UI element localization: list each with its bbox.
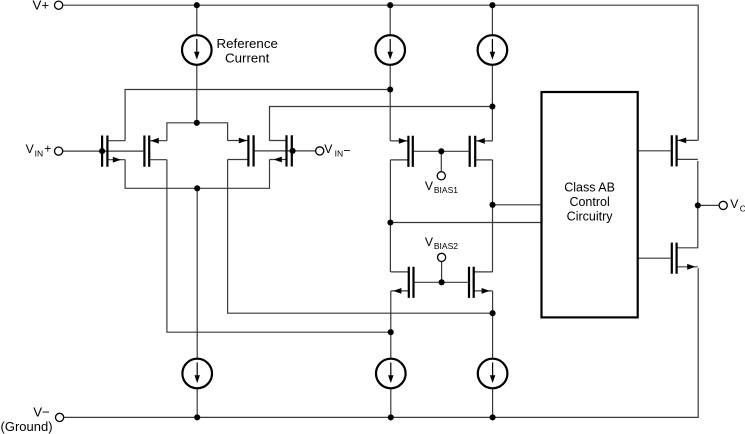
svg-text:Reference: Reference xyxy=(217,36,278,51)
svg-text:Class AB: Class AB xyxy=(564,180,615,194)
svg-text:V+: V+ xyxy=(33,0,50,12)
svg-text:−: − xyxy=(343,144,350,158)
svg-text:BIAS1: BIAS1 xyxy=(434,185,458,195)
svg-text:V: V xyxy=(324,142,333,156)
svg-text:Current: Current xyxy=(225,51,270,66)
svg-text:V−: V− xyxy=(33,405,50,420)
svg-text:V: V xyxy=(425,235,434,249)
svg-text:IN: IN xyxy=(35,148,44,158)
svg-text:(Ground): (Ground) xyxy=(1,419,53,434)
svg-text:V: V xyxy=(425,179,434,193)
svg-text:V: V xyxy=(730,197,739,211)
svg-text:V: V xyxy=(26,142,35,156)
svg-text:Control: Control xyxy=(569,195,609,209)
svg-text:O: O xyxy=(740,203,745,213)
svg-text:+: + xyxy=(44,142,51,156)
svg-text:Circuitry: Circuitry xyxy=(567,209,614,223)
svg-text:BIAS2: BIAS2 xyxy=(434,241,458,251)
svg-text:IN: IN xyxy=(335,148,344,158)
